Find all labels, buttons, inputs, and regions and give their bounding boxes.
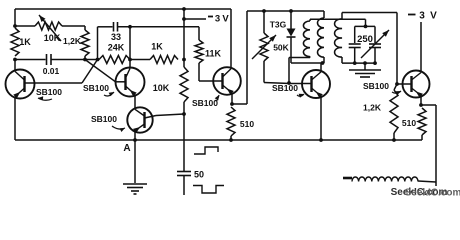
node 510 bottom rail (229, 138, 233, 142)
wire 0.01 row left (15, 59, 46, 61)
wire winding2 bottom (323, 57, 325, 63)
svg-text:SB100: SB100 (272, 83, 298, 93)
node Q5 emitter rail (319, 138, 323, 142)
label 250 (357, 34, 373, 45)
wire Q4 base lead (199, 80, 223, 82)
wire 11K top corner (198, 27, 200, 40)
waveform pulse positive (194, 147, 218, 154)
label T3G diode (270, 20, 287, 30)
node rail / 50K pot top (262, 9, 266, 13)
svg-text:3: 3 (215, 14, 220, 25)
svg-text:1,2K: 1,2K (63, 36, 82, 46)
svg-text:1,2K: 1,2K (363, 103, 382, 113)
node 1K right (182, 58, 186, 62)
wire right rail (247, 10, 324, 12)
potentiometer R2 10K (35, 15, 62, 43)
svg-text:1K: 1K (151, 42, 163, 52)
svg-text:50K: 50K (273, 43, 289, 53)
wire -3V lead (184, 18, 206, 20)
wire winding3 bottom (341, 57, 343, 63)
node tank bottom ground stub (363, 61, 377, 65)
wire Q3 base lead (145, 114, 185, 118)
node tank bottom left (353, 61, 357, 65)
wire Q3 emitter (134, 132, 136, 140)
node 24K left (96, 58, 100, 62)
wire winding1 top to tank (310, 19, 366, 26)
resistor R10 1.2K (363, 84, 398, 140)
transistor Q2 SB100 (116, 68, 145, 97)
wire Q4 collector (230, 9, 232, 68)
wire 50K bottom to Q5 base (264, 83, 290, 84)
wire rail corner to winding2 (323, 11, 325, 18)
wire tank bottom bar (342, 62, 375, 64)
label Q6 SB100 (363, 81, 401, 95)
svg-text:0.01: 0.01 (43, 66, 60, 76)
wire ground stub tank (364, 63, 366, 69)
wire tank top bar (355, 25, 375, 27)
capacitor C3 50 (177, 170, 204, 196)
inductor T1 winding3 (335, 19, 342, 57)
svg-text:10K: 10K (153, 83, 170, 93)
node 33 box right top (128, 25, 132, 29)
wire 24K-1K row (130, 59, 150, 61)
resistor R5 1K (150, 42, 178, 64)
wire ground stub A (134, 140, 136, 183)
transistor Q3 SB100 (127, 107, 152, 133)
label node A (123, 143, 130, 154)
label Q3 SB100 (91, 114, 125, 132)
label Q5 SB100 (272, 83, 304, 98)
svg-text:510: 510 (402, 118, 416, 128)
resistor R6 10K (153, 60, 188, 115)
resistor R11 510 (402, 108, 426, 140)
svg-text:V: V (222, 14, 229, 25)
node junction left rail / pot row (13, 24, 17, 28)
transistor Q4 SB100 (213, 67, 241, 95)
resistor R3 1.2K (63, 26, 89, 60)
node Q6 emitter junction (419, 103, 423, 107)
label Q4 SB100 (192, 95, 219, 108)
wire 33 box right (129, 27, 131, 60)
svg-text:33: 33 (111, 32, 121, 42)
svg-text:T3G: T3G (270, 20, 287, 30)
svg-text:510: 510 (240, 119, 254, 129)
wire -3V top rail (15, 8, 231, 10)
node Q4 emitter junction (230, 102, 234, 106)
wire bottom rail (15, 139, 422, 141)
svg-text:SeekIC.com: SeekIC.com (405, 188, 460, 199)
node 1.2K bottom rail (392, 138, 396, 142)
wire pot row right (62, 25, 85, 27)
svg-text:SB100: SB100 (83, 83, 109, 93)
resistor R7 11K (195, 40, 222, 81)
svg-text:SB100: SB100 (36, 87, 62, 97)
wire Q1 emitter (14, 98, 16, 140)
svg-text:SB100: SB100 (91, 114, 117, 124)
potentiometer R9 50K (252, 11, 290, 83)
watermark (391, 187, 460, 199)
wire diode bottom to Q5 collector node (291, 62, 324, 64)
node rail / diode top (289, 9, 293, 13)
inductor T1 winding2 (317, 18, 324, 57)
ground under node A (123, 184, 147, 194)
wire winding1 bottom jog (289, 57, 310, 84)
wire Q5 collector (320, 63, 322, 71)
node rail / -3V branch (182, 7, 186, 11)
label -3V supply middle (208, 14, 229, 25)
wire winding3 top to output (342, 13, 397, 85)
svg-text:A: A (123, 143, 130, 154)
wire 33 box left (97, 27, 99, 60)
wire Q6 base lead (397, 83, 412, 85)
wire 10K to 50 cap (183, 114, 185, 171)
svg-text:24K: 24K (108, 43, 125, 53)
capacitor C2 33 (111, 22, 121, 42)
node 1K bottom / 0.01 row (13, 58, 17, 62)
transistor Q5 SB100 (302, 70, 330, 98)
node A junction (133, 138, 137, 142)
svg-text:SB100: SB100 (192, 98, 218, 108)
node 1.2K bottom (83, 58, 87, 62)
node 24K right / Q2 collector (128, 58, 132, 62)
node 10K bottom / Q3 base (182, 112, 186, 116)
wire Q2 collector (129, 60, 131, 68)
wire Q2 emitter to Q3 (134, 96, 136, 109)
wire Q4 emitter jog to right rail (232, 11, 247, 104)
capacitor C4 fixed (349, 26, 361, 63)
wire Q5 emitter (320, 97, 322, 140)
wire -3V branch vertical (183, 9, 185, 60)
resistor R1 1K (11, 28, 31, 56)
capacitor C1 0.01 (43, 54, 60, 76)
label Q2 SB100 (83, 83, 114, 96)
wire 33 row right (118, 26, 200, 28)
wire pot row left (15, 25, 35, 27)
transistor Q6 SB100 (403, 71, 430, 98)
diode D1 T3G (287, 11, 296, 63)
wire 0.01 row right (51, 59, 98, 61)
inductor L1 output coil (343, 177, 436, 182)
wire Q2 base lead (116, 81, 126, 83)
node tank top (364, 25, 368, 29)
transistor Q1 SB100 (6, 70, 35, 99)
svg-text:1K: 1K (19, 37, 31, 47)
wire Q5 base lead (289, 83, 312, 85)
node Q6 base junction (395, 82, 399, 86)
wire Q1 base lead (25, 82, 35, 84)
svg-text:V: V (430, 11, 437, 22)
label -3V supply right (408, 11, 437, 22)
svg-text:10K: 10K (44, 33, 61, 43)
waveform pulse negative (193, 186, 224, 194)
wire cross coupling to Q1 base (34, 60, 97, 84)
wire Q4 emitter (231, 94, 233, 104)
resistor R8 510 (227, 107, 254, 140)
ground under tank (349, 70, 381, 77)
inductor T1 winding1 (303, 21, 310, 57)
svg-text:50: 50 (194, 170, 204, 180)
wire Q1 collector (14, 60, 16, 71)
node Q5 collector / winding2 bottom (321, 61, 325, 65)
wire Q6 emitter jog right (421, 105, 436, 186)
wire cross coupling to Q2 base (85, 60, 116, 82)
svg-text:3: 3 (419, 11, 425, 22)
svg-text:11K: 11K (205, 49, 222, 59)
wire left vertical to 1K (14, 9, 16, 26)
resistor R4 24K (99, 43, 130, 64)
label Q1 SB100 (36, 87, 62, 101)
wire 33 row left (98, 26, 113, 28)
node Q5 base junction (287, 81, 291, 85)
wire -3V right vertical (420, 22, 422, 72)
wire Q6 emitter (420, 97, 422, 106)
capacitor C5 trimmer 250 (361, 26, 389, 63)
node -3V tap (182, 17, 186, 21)
svg-text:SB100: SB100 (363, 81, 389, 91)
